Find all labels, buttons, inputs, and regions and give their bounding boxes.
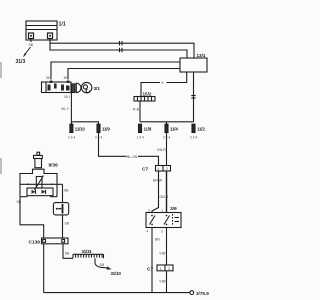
svg-text:31/10: 31/10	[111, 271, 122, 276]
wire C7 to 3/9 pin 2	[152, 171, 159, 213]
svg-text:3/75.9: 3/75.9	[196, 291, 209, 296]
connector C7 (upper)	[156, 166, 171, 172]
page edge mark upper	[0, 62, 2, 78]
wire junction tap down to lamp switch	[62, 184, 64, 202]
ground strip 31/31	[73, 254, 104, 258]
ignition switch coupling bar	[72, 84, 75, 93]
svg-text:BN-W: BN-W	[153, 179, 163, 183]
splice ticks on upper wire	[120, 41, 123, 45]
splice ticks on 13/1 down wire	[191, 96, 195, 99]
svg-text:4: 4	[147, 230, 149, 234]
wire C7 to 3/9 pin 1	[166, 171, 168, 213]
svg-text:30: 30	[64, 76, 68, 80]
ignition switch D housing	[76, 83, 81, 92]
svg-text:11/2: 11/2	[197, 127, 205, 132]
svg-text:SB: SB	[17, 200, 22, 204]
wire battery+ to 13/1 (upper)	[50, 39, 194, 59]
fuse 15/2	[134, 97, 155, 102]
bus 11/8 to 11/2	[140, 121, 194, 123]
page edge mark lower	[0, 158, 2, 174]
svg-text:Y-BN: Y-BN	[159, 252, 167, 256]
wire label X	[160, 80, 167, 85]
ground rail	[44, 292, 190, 294]
svg-text:3/1: 3/1	[94, 86, 101, 91]
svg-text:GN-R: GN-R	[160, 195, 169, 199]
svg-text:15 I: 15 I	[64, 95, 70, 99]
connector 11/8	[139, 124, 142, 132]
svg-text:11/4: 11/4	[170, 127, 178, 132]
ground arrow 31/10	[95, 264, 112, 270]
wire X from 13/1 to fuse 15/2	[141, 72, 187, 97]
connector 11/9	[97, 124, 100, 132]
wire C139 to ground rail	[43, 244, 45, 293]
svg-text:31/31: 31/31	[82, 249, 93, 254]
wire label BL-GN	[127, 154, 139, 159]
svg-text:BN: BN	[155, 238, 160, 242]
svg-text:1 3 4: 1 3 4	[68, 136, 75, 140]
lamp switch unit	[53, 203, 68, 215]
stub to 11/4	[166, 122, 168, 124]
svg-text:3: 3	[161, 230, 163, 234]
svg-text:3: 3	[168, 267, 170, 271]
svg-text:1: 1	[160, 267, 162, 271]
svg-text:15/2: 15/2	[143, 92, 152, 97]
wire 3/9 pin4 to ground rail	[151, 228, 153, 293]
ignition switch 3/1 body	[42, 81, 72, 93]
svg-text:C7: C7	[147, 267, 153, 273]
wire 11/4 to C7 pin 2	[166, 133, 168, 166]
svg-text:C7: C7	[142, 167, 148, 173]
svg-text:R-B: R-B	[133, 108, 140, 112]
battery 1/1	[26, 21, 57, 40]
svg-text:30: 30	[46, 76, 50, 80]
svg-text:11/10: 11/10	[75, 127, 86, 132]
illumination diode box	[27, 188, 53, 196]
svg-text:Y-BN: Y-BN	[159, 280, 167, 284]
splice ticks on lower wire	[120, 48, 123, 52]
svg-text:C139: C139	[29, 240, 41, 246]
ignition relay 13/1	[180, 58, 207, 72]
connector C7 (lower)	[157, 265, 173, 271]
svg-text:31/3: 31/3	[16, 59, 26, 65]
continuation node circle	[190, 291, 194, 295]
cigarette lighter 8/36 plug	[34, 152, 43, 168]
svg-text:2 3 4: 2 3 4	[190, 136, 197, 140]
svg-text:SB: SB	[65, 222, 70, 226]
wire battery+ to 13/1 (lower)	[50, 43, 187, 58]
wire 13/1 to switch terminal 30 (left)	[51, 62, 180, 80]
svg-text:2: 2	[166, 167, 168, 171]
wire 13/1 down to 11/2 bus	[193, 72, 195, 122]
switch 3/9	[146, 213, 181, 228]
wire switch to fuse bus (left)	[70, 93, 72, 125]
svg-text:11/8: 11/8	[144, 127, 152, 132]
wire 8/36 to C139 pin1	[20, 197, 44, 238]
svg-text:1/1: 1/1	[59, 22, 66, 28]
svg-text:SB: SB	[29, 43, 34, 47]
heating element resistor	[35, 176, 44, 191]
junction wire in 8/36	[20, 183, 63, 185]
wire fuse to bus	[139, 101, 141, 122]
svg-text:8/36: 8/36	[49, 163, 59, 169]
ground 31/3	[23, 39, 31, 58]
svg-text:BL-Y: BL-Y	[62, 107, 70, 111]
connector 11/2	[192, 124, 195, 132]
svg-text:3/9: 3/9	[170, 206, 177, 212]
wire 31/31 to ground 31/10	[94, 258, 96, 263]
bus 11/10 to 11/9	[71, 122, 98, 124]
wire 11/9 to C7 pin 4	[99, 133, 159, 166]
svg-text:GN-R: GN-R	[157, 148, 166, 152]
svg-text:13/1: 13/1	[197, 53, 206, 58]
svg-text:11/9: 11/9	[102, 127, 110, 132]
svg-text:SB: SB	[100, 263, 105, 267]
wire C139 to ground strip 31/31	[63, 244, 73, 258]
svg-text:1 3 4: 1 3 4	[137, 136, 144, 140]
svg-text:BL-GN: BL-GN	[127, 155, 138, 159]
wire C7 lower to ground rail	[166, 271, 168, 293]
wire 3/9 pin3 to C7 lower	[166, 228, 168, 266]
ignition key symbol	[81, 82, 91, 92]
wire 13/1 to switch terminal 30 (right)	[68, 69, 180, 80]
lighter socket housing	[20, 169, 57, 197]
wire lamp switch to C139 pin4	[62, 215, 64, 238]
connector 11/4	[165, 124, 168, 132]
connector C139	[42, 238, 69, 244]
connector 11/10	[70, 124, 73, 132]
svg-text:SB: SB	[64, 189, 69, 193]
svg-text:4: 4	[158, 167, 160, 171]
svg-text:SB: SB	[65, 252, 70, 256]
